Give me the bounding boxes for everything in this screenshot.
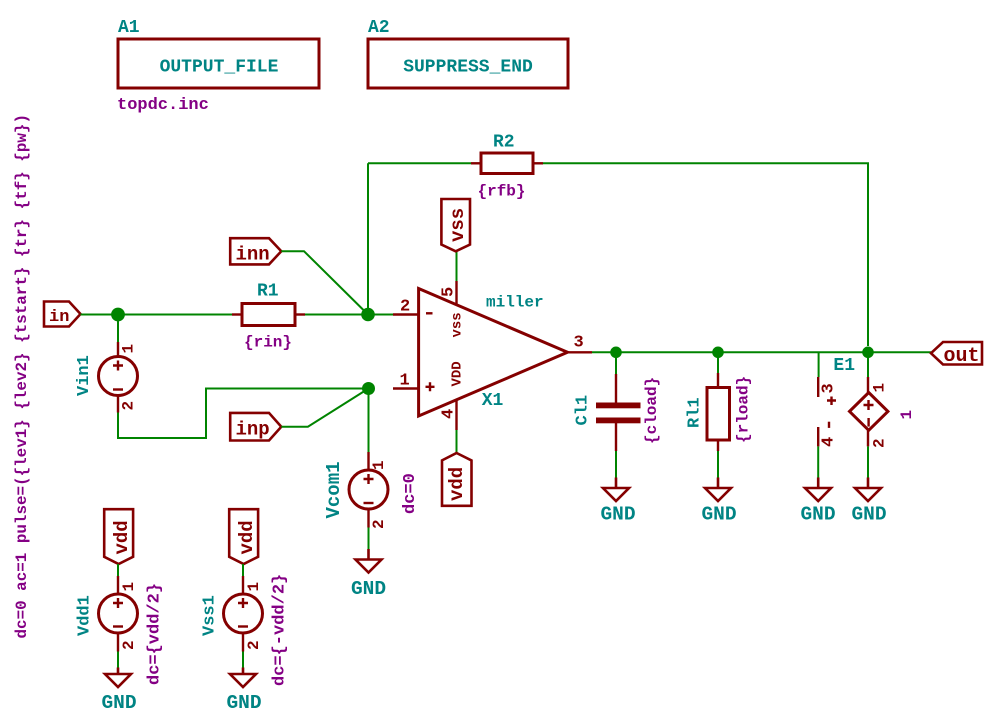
svg-text:3: 3 [820,383,839,393]
hierarchical label inp [230,413,281,441]
wire inp to junction [281,389,368,427]
wire op-amp pin 1 to Vcom1 [368,389,370,454]
E1 control minus mark [828,422,830,428]
svg-text:3: 3 [574,334,584,353]
hierarchical label vdd (Vdd1) [104,509,133,564]
wire Rl1 top [717,352,719,373]
junction node inn / R1 / R2 riser [361,308,375,322]
svg-text:SUPPRESS_END: SUPPRESS_END [403,58,533,78]
resistor Rl1 body [707,388,730,441]
global label in [44,302,81,327]
Vcom1 pin 1 stub [367,452,369,470]
op-amp pin 2 name minus [426,312,433,314]
resistor R2 body [481,153,533,174]
Vin1 pin 2 stub [117,395,119,413]
svg-text:{rload}: {rload} [735,376,753,443]
op-amp pin 1 name plus [426,382,435,391]
ground symbol Vcom1 [356,549,382,573]
svg-text:{rin}: {rin} [244,334,292,352]
ground symbol E1 control [805,478,831,502]
Vcom1 pin 2 stub [367,509,369,528]
svg-text:1: 1 [871,383,889,393]
resistor Rl1 top pin stub [717,373,719,388]
svg-text:inp: inp [236,419,270,441]
wire feedback riser [367,163,369,314]
junction node in / Vin1 [111,308,125,322]
svg-text:dc=0 ac=1 pulse=({lev1} {lev2}: dc=0 ac=1 pulse=({lev1} {lev2} {tstart} … [13,114,31,638]
hierarchical label vdd (op-amp supply) [442,453,472,506]
Vcom1 minus mark [364,502,374,504]
svg-text:1: 1 [400,372,410,391]
vcvs E1 diamond body [850,393,888,431]
svg-text:GND: GND [851,504,886,526]
op-amp pin 2 stub (inverting input) [393,313,419,315]
svg-text:{rfb}: {rfb} [477,183,525,201]
Vdd1 pin 1 stub [117,576,119,594]
svg-text:vss: vss [447,208,469,242]
E1 control plus mark [827,397,836,406]
wire R2 to output node [543,163,868,346]
svg-text:vss: vss [450,312,466,337]
resistor R2 right pin stub [533,162,543,164]
wire pin 5 to vss label [456,251,458,281]
Vin1 plus mark [113,361,123,371]
ground symbol Rl1 [705,478,731,502]
wire R1 to op-amp pin 2 [305,314,393,316]
svg-text:E1: E1 [833,356,855,376]
svg-text:Vcom1: Vcom1 [323,461,345,518]
svg-text:Rl1: Rl1 [686,397,705,428]
resistor R1 left pin stub [232,313,242,315]
svg-text:vdd: vdd [236,520,258,554]
svg-text:Cl1: Cl1 [574,395,593,426]
Vdd1 plus mark [113,598,123,608]
svg-text:GND: GND [226,692,261,714]
svg-text:R2: R2 [493,133,515,153]
wire Vss1 to ground [242,652,244,668]
junction node Cl1 [610,347,622,359]
Vin1 pin 1 stub [117,342,119,358]
svg-text:GND: GND [101,692,136,714]
svg-text:1: 1 [120,344,138,354]
junction node inp / Vcom1 / op-amp pin 1 [362,382,375,395]
svg-text:VDD: VDD [450,361,466,386]
ground symbol E1 [855,478,881,502]
wire riser to R2 [368,162,471,164]
resistor R2 left pin stub [471,162,481,164]
svg-text:1: 1 [898,410,916,420]
voltage source Vin1 circle [99,357,138,396]
capacitor Cl1 top plate [596,403,641,409]
svg-text:2: 2 [245,640,263,650]
wire E1 control to ground [817,446,819,477]
svg-text:out: out [944,345,980,368]
wire Vin1 bottom loop to op-amp pin 1 row [118,389,369,439]
wire Cl1 to ground [615,451,617,478]
hierarchical label vdd (Vss1) [229,509,258,564]
Vss1 minus mark [238,625,248,627]
svg-text:A1: A1 [118,18,140,38]
Vin1 minus mark [113,388,123,390]
E1 pin 3 stub (control +) [817,377,819,397]
Vss1 pin 2 stub [242,632,244,652]
svg-text:2: 2 [871,438,889,448]
voltage source Vss1 circle [224,594,263,633]
svg-text:2: 2 [120,640,138,650]
svg-text:X1: X1 [482,391,504,411]
svg-text:GND: GND [600,504,635,526]
svg-text:topdc.inc: topdc.inc [117,96,209,115]
resistor R1 right pin stub [295,313,305,315]
op-amp pin 1 stub (non-inverting input) [393,387,419,389]
wire pin 4 to vdd label [456,430,458,453]
svg-text:dc={-vdd/2}: dc={-vdd/2} [271,574,290,686]
svg-text:dc={vdd/2}: dc={vdd/2} [146,583,165,685]
svg-text:R1: R1 [257,282,279,302]
svg-text:OUTPUT_FILE: OUTPUT_FILE [160,58,279,78]
E1 minus mark [867,418,869,427]
svg-text:4: 4 [820,437,839,447]
E1 pin 1 stub [867,377,869,393]
wire Vin1 top [117,315,119,343]
svg-text:{cload}: {cload} [643,377,661,444]
svg-text:1: 1 [245,582,263,592]
svg-text:Vss1: Vss1 [201,595,220,636]
svg-text:2: 2 [120,401,138,411]
E1 pin 4 stub (control -) [817,427,819,446]
op-amp pin 4 stub (VDD) [455,400,457,430]
hierarchical label vss [441,199,470,251]
svg-text:GND: GND [701,504,736,526]
wire E1 pin 2 to ground [867,446,869,477]
capacitor Cl1 bottom pin stub [615,423,617,451]
ground symbol Vdd1 [105,668,131,688]
wire vdd label to Vss1 [242,564,244,576]
wire Vcom1 to ground [368,528,370,550]
svg-text:2: 2 [400,298,410,317]
junction node Rl1 [712,347,724,359]
junction node out / E1 [862,347,874,359]
Vss1 pin 1 stub [242,576,244,594]
svg-text:4: 4 [440,409,459,419]
svg-text:miller: miller [486,294,544,312]
wire inn to junction [281,251,368,314]
spice directive block A1 box [118,39,319,88]
wire out node to E1 pin 1 [867,352,869,377]
svg-text:5: 5 [440,287,459,297]
svg-text:1: 1 [370,460,388,470]
voltage source Vcom1 circle [349,470,388,509]
svg-text:GND: GND [800,504,835,526]
wire E1 control drop [818,352,820,377]
voltage source Vdd1 circle [99,594,138,633]
hierarchical label inn [230,238,281,264]
svg-text:vdd: vdd [446,467,468,501]
op-amp X1 triangle body [419,289,568,417]
wire Cl1 top [615,352,617,374]
Vdd1 minus mark [113,625,123,627]
svg-text:GND: GND [351,578,386,600]
svg-text:in: in [49,308,69,327]
wire vdd label to Vdd1 [117,564,119,576]
svg-text:inn: inn [236,244,270,266]
wire in port to R1 [81,314,235,316]
wire Rl1 to ground [717,451,719,478]
resistor R1 body [242,304,295,326]
svg-text:vdd: vdd [111,520,133,554]
capacitor Cl1 top pin stub [615,374,617,403]
ground symbol Vss1 [230,668,256,688]
svg-text:dc=0: dc=0 [401,473,420,514]
op-amp pin 3 stub (output) [568,351,593,353]
spice directive block A2 box [368,39,568,88]
svg-text:A2: A2 [368,18,390,38]
op-amp pin 5 stub (VSS) [455,281,457,305]
E1 pin 2 stub [867,430,869,446]
svg-text:2: 2 [370,519,388,529]
svg-text:Vdd1: Vdd1 [76,595,95,636]
resistor Rl1 bottom pin stub [717,440,719,451]
Vcom1 plus mark [364,474,374,484]
svg-text:1: 1 [120,582,138,592]
global label out [931,342,982,365]
capacitor Cl1 bottom plate [596,418,641,424]
Vdd1 pin 2 stub [117,632,119,652]
wire output bus [592,351,931,353]
svg-text:Vin1: Vin1 [75,355,94,396]
E1 plus mark [864,400,874,410]
Vss1 plus mark [238,598,248,608]
ground symbol Cl1 [603,478,629,502]
wire Vdd1 to ground [117,652,119,668]
